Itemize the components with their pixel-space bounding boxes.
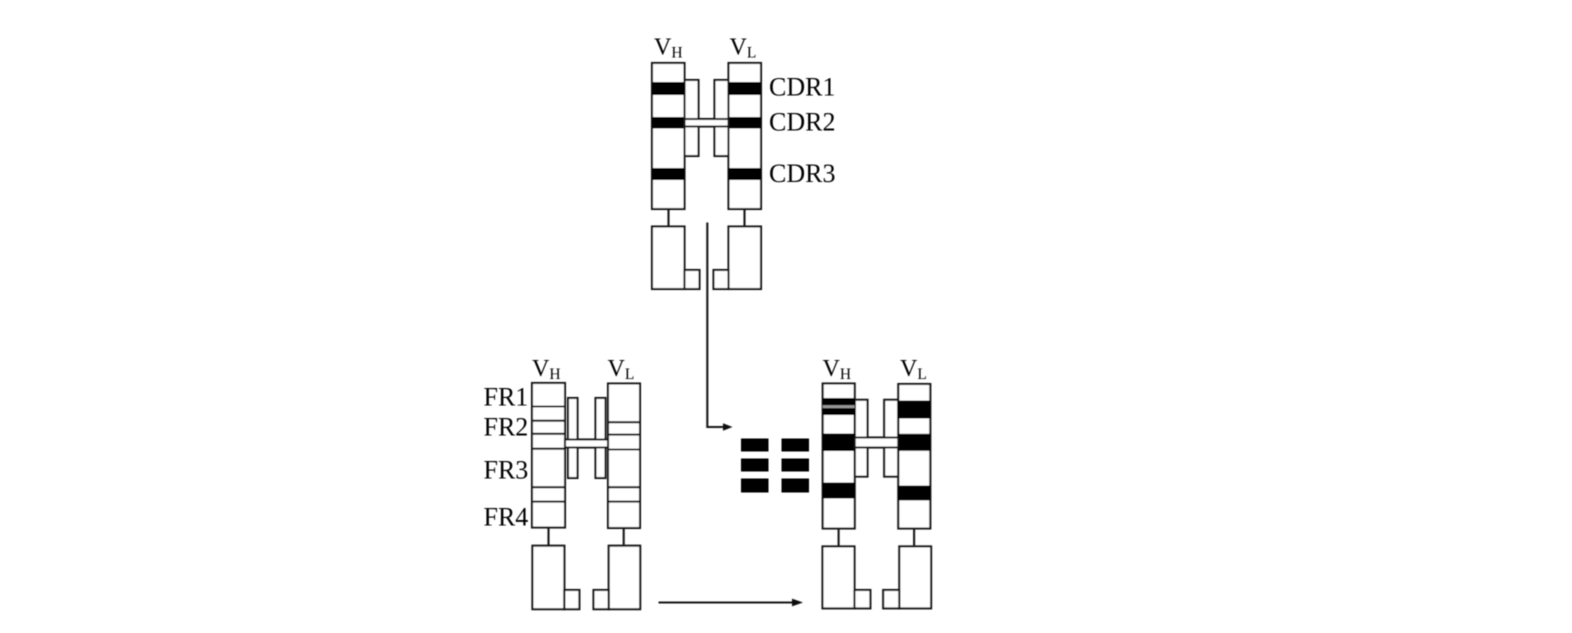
linker domain rect right (bottom-left) <box>596 398 606 478</box>
constant domain VH (bottom-left) <box>532 546 564 610</box>
connector bar (top) <box>685 119 729 127</box>
stem VH (top) <box>667 209 669 227</box>
linker domain rect left (bottom-right) <box>855 400 868 477</box>
stem VH (bottom-left) <box>547 528 549 547</box>
VL segment line 1 <box>608 421 640 423</box>
connector bar (bottom-left) <box>565 440 608 448</box>
VH segment line 3 <box>532 433 565 435</box>
arrow down-right polyline <box>707 223 723 428</box>
VH domain column (top) <box>652 63 685 209</box>
VH segment line 6 <box>532 501 565 503</box>
CDR1 band VH (bottom-right) <box>823 398 855 415</box>
CDR2 band VL (bottom-right) <box>898 434 930 451</box>
arrow line (bottom) <box>659 601 793 603</box>
CDR2 band VL (top) <box>729 117 762 129</box>
VH domain column (bottom-left) <box>532 383 565 528</box>
VL segment line 4 <box>608 486 640 488</box>
CDR2 band VH (top) <box>652 117 685 129</box>
VL segment line 5 <box>608 501 640 503</box>
stem VL (bottom-right) <box>913 529 915 547</box>
constant domain step VH (bottom-right) <box>855 590 871 608</box>
CDR bar row3 right <box>782 479 810 493</box>
CDR bar row1 left <box>741 439 769 452</box>
CDR bar row3 left <box>741 479 769 493</box>
CDR1 band VL (top) <box>729 82 762 95</box>
VH segment line 2 <box>532 420 565 422</box>
CDR bar row2 right <box>782 459 810 472</box>
svg-text:CDR2: CDR2 <box>769 108 835 137</box>
svg-text:VL: VL <box>900 356 927 383</box>
VH domain column (bottom-right) <box>823 384 855 529</box>
VH segment line 4 <box>532 448 565 450</box>
VL segment line 2 <box>608 434 640 436</box>
linker domain rect left (top) <box>685 80 699 156</box>
svg-text:VH: VH <box>532 356 561 383</box>
constant domain step VH (bottom-left) <box>564 590 579 609</box>
stem VL (top) <box>743 209 745 227</box>
CDR3 band VL (bottom-right) <box>898 486 930 501</box>
linker domain rect left (bottom-left) <box>568 398 578 478</box>
CDR2 band VH (bottom-right) <box>823 434 855 452</box>
VL segment line 3 <box>608 448 640 450</box>
CDR bar row2 left <box>741 459 769 472</box>
constant domain step VL (bottom-right) <box>883 590 899 608</box>
svg-text:VH: VH <box>654 35 683 62</box>
CDR3 band VL (top) <box>729 168 762 180</box>
connector bar (bottom-right) <box>855 438 899 448</box>
CDR1 band VH (top) <box>652 82 685 95</box>
svg-text:VL: VL <box>608 356 635 383</box>
svg-text:FR2: FR2 <box>484 413 529 442</box>
VL domain column (top) <box>729 63 762 209</box>
CDR bar row1 right <box>782 439 810 452</box>
svg-text:CDR1: CDR1 <box>769 73 835 102</box>
svg-text:VL: VL <box>730 35 757 62</box>
constant domain VL (bottom-right) <box>899 546 931 608</box>
CDR3 band VH (bottom-right) <box>823 483 855 499</box>
svg-text:FR4: FR4 <box>484 502 529 531</box>
arrow head (down arrow) <box>723 423 733 430</box>
VH segment line 1 <box>532 405 565 407</box>
stem VL (bottom-left) <box>623 528 625 546</box>
constant domain step VL (bottom-left) <box>594 590 609 609</box>
svg-text:FR1: FR1 <box>484 383 529 412</box>
CDR1 band VL (bottom-right) <box>898 401 930 419</box>
arrow head (bottom arrow) <box>792 599 803 607</box>
constant domain step VH (top) <box>685 270 700 289</box>
constant domain VH (top) <box>652 227 685 290</box>
constant domain step VL (top) <box>714 270 729 289</box>
linker domain rect right (bottom-right) <box>884 400 898 477</box>
linker domain rect right (top) <box>715 80 729 156</box>
constant domain VH (bottom-right) <box>823 546 855 608</box>
CDR3 band VH (top) <box>652 168 685 180</box>
VL domain column (bottom-right) <box>898 384 930 529</box>
constant domain VL (bottom-left) <box>609 546 641 610</box>
svg-text:FR3: FR3 <box>484 456 529 485</box>
VL domain column (bottom-left) <box>608 384 640 529</box>
svg-text:VH: VH <box>823 356 852 383</box>
constant domain VL (top) <box>729 227 762 290</box>
CDR1 gray stripe VH (bottom-right) <box>823 405 855 408</box>
VH segment line 5 <box>532 486 565 488</box>
svg-text:CDR3: CDR3 <box>769 159 835 188</box>
stem VH (bottom-right) <box>838 529 840 547</box>
